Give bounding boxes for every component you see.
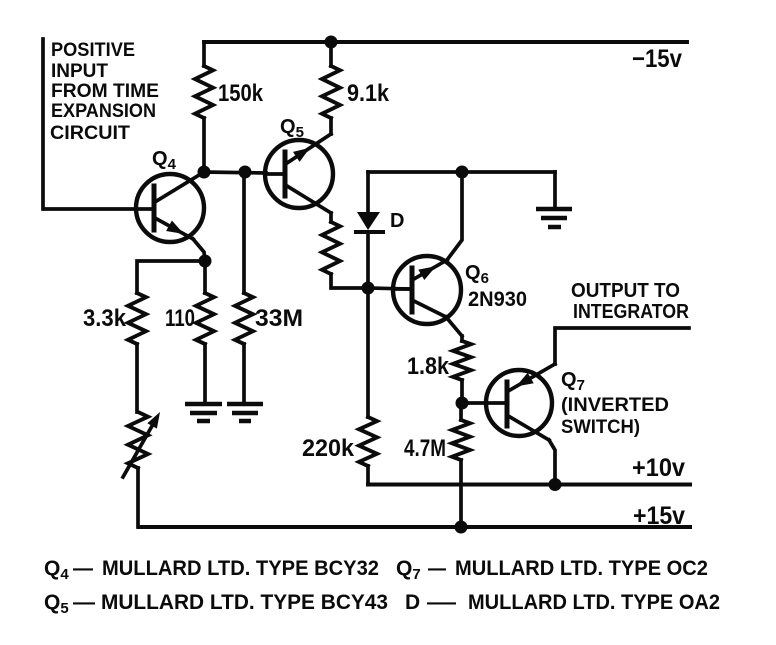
svg-text:+10v: +10v (632, 454, 685, 482)
svg-text:MULLARD LTD. TYPE BCY43: MULLARD LTD. TYPE BCY43 (101, 591, 388, 614)
resistor 150k (195, 42, 264, 172)
svg-text:MULLARD LTD. TYPE BCY32: MULLARD LTD. TYPE BCY32 (102, 557, 379, 580)
wire output to integrator (555, 328, 689, 364)
transistor Q7 (486, 364, 669, 485)
node junction dot Q4 emitter (199, 255, 212, 268)
resistor 4.7M (404, 403, 470, 527)
svg-text:MULLARD LTD. TYPE OA2: MULLARD LTD. TYPE OA2 (468, 591, 720, 614)
resistor 3.3k (83, 293, 146, 412)
svg-text:Q5: Q5 (280, 116, 304, 141)
node input text (50, 40, 159, 144)
svg-text:Q4: Q4 (152, 148, 177, 173)
svg-text:—: — (428, 557, 446, 580)
svg-text:150k: 150k (218, 80, 264, 107)
diode D (356, 172, 404, 288)
node junction dot Q4-150k (198, 166, 211, 179)
svg-text:—: — (73, 591, 95, 614)
node junction dot Q7 base (456, 397, 469, 410)
node junction dot 9.1k on rail (325, 36, 338, 49)
svg-text:CIRCUIT: CIRCUIT (50, 123, 130, 144)
wire top rail -15v (204, 40, 687, 44)
svg-text:Q5: Q5 (44, 591, 69, 617)
transistor Q6 (393, 256, 527, 336)
wire Q6 base (368, 288, 412, 289)
svg-text:2N930: 2N930 (468, 288, 527, 311)
wire input line (43, 39, 136, 209)
svg-text:(INVERTED: (INVERTED (561, 395, 669, 416)
svg-text:+15v: +15v (633, 502, 685, 530)
wire +10v rail (368, 483, 690, 487)
resistor 220k (302, 288, 377, 485)
svg-text:OUTPUT TO: OUTPUT TO (571, 280, 680, 302)
svg-text:—: — (427, 591, 456, 614)
ground (top right) (536, 172, 572, 227)
resistor 110 (165, 261, 214, 403)
svg-text:1.8k: 1.8k (407, 353, 450, 380)
svg-text:INTEGRATOR: INTEGRATOR (573, 301, 689, 323)
resistor 1.8k (407, 336, 471, 403)
ground (110) (185, 404, 222, 421)
svg-text:4.7M: 4.7M (404, 435, 446, 462)
ground (33M) (227, 404, 263, 421)
svg-text:INPUT: INPUT (51, 61, 108, 82)
node junction dot 33M tap (239, 166, 252, 179)
svg-text:Q6: Q6 (465, 262, 489, 287)
node output label (571, 280, 689, 323)
node junction dot diode-emitter-220k-base (362, 282, 375, 295)
svg-text:POSITIVE: POSITIVE (51, 40, 135, 61)
resistor Q5 emitter (unlabeled) (322, 213, 368, 288)
legend line 1 (44, 557, 708, 583)
wire Q4 collector to Q5 base (204, 172, 266, 173)
resistor 9.1k (322, 42, 390, 134)
svg-text:220k: 220k (302, 435, 355, 462)
svg-text:FROM TIME: FROM TIME (51, 81, 159, 102)
svg-text:—: — (73, 557, 93, 580)
svg-text:3.3k: 3.3k (83, 305, 127, 332)
wire Q6 collector (447, 172, 462, 260)
svg-text:Q4: Q4 (44, 557, 69, 583)
svg-text:33M: 33M (255, 305, 303, 332)
node junction dot Q6 collector on ground run (456, 166, 469, 179)
svg-text:SWITCH): SWITCH) (561, 417, 640, 438)
node junction dot 4.7M on +15v (455, 521, 468, 534)
svg-text:−15v: −15v (632, 45, 682, 73)
transistor Q5 (265, 116, 333, 213)
svg-text:D: D (390, 210, 404, 232)
resistor 33M (235, 172, 303, 403)
svg-text:MULLARD LTD. TYPE OC2: MULLARD LTD. TYPE OC2 (455, 557, 708, 580)
variable resistor (pot) (123, 412, 160, 527)
wire Q7 base (462, 401, 507, 405)
svg-text:Q7: Q7 (561, 369, 585, 394)
svg-text:D: D (405, 591, 420, 614)
transistor Q4 (136, 148, 205, 261)
svg-text:110: 110 (165, 305, 195, 332)
node junction dot Q7 emitter on +10v (549, 478, 562, 491)
wire emitter to 3.3k branch (137, 261, 205, 293)
wire +15v rail (139, 525, 690, 529)
svg-text:9.1k: 9.1k (347, 80, 390, 107)
svg-text:EXPANSION: EXPANSION (51, 101, 156, 122)
legend line 2 (44, 591, 720, 617)
svg-text:Q7: Q7 (396, 557, 421, 583)
wire diode/ground run (368, 170, 555, 174)
